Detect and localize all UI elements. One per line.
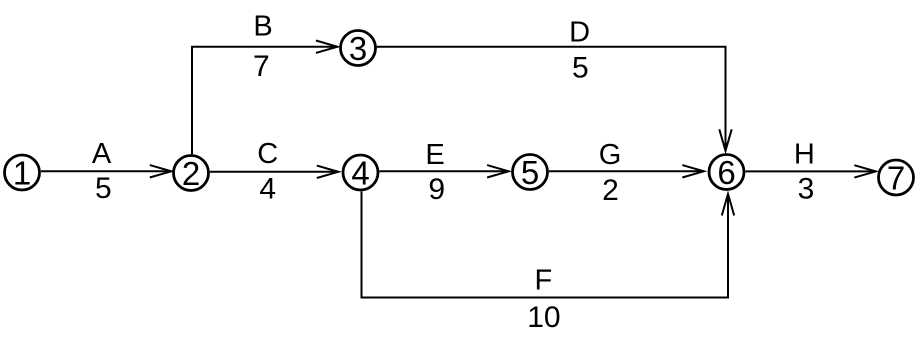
svg-text:1: 1 [13,154,31,191]
node 6 [709,154,744,191]
svg-text:5: 5 [572,52,589,85]
wire B (2 up and right to 3) [192,41,337,155]
node 1 [5,154,40,191]
node 2 [174,155,209,192]
svg-text:A: A [92,138,112,170]
wire H (6 to 7) [746,165,876,177]
node 3 [341,30,376,67]
wire A (1 to 2) [41,165,171,177]
svg-text:4: 4 [259,172,276,205]
svg-text:3: 3 [349,30,367,67]
svg-text:2: 2 [602,174,619,207]
svg-text:7: 7 [887,159,905,196]
svg-text:2: 2 [182,155,200,192]
node 5 [513,154,548,191]
svg-text:4: 4 [351,154,369,191]
svg-text:F: F [534,264,552,296]
svg-text:C: C [257,138,278,170]
wire G (5 to 6) [549,165,704,177]
svg-text:3: 3 [798,172,815,205]
wire D (3 right and down to 6) [377,47,732,151]
svg-text:E: E [425,139,444,171]
svg-text:G: G [599,139,622,171]
svg-text:D: D [569,16,590,48]
svg-text:5: 5 [521,154,539,191]
svg-text:5: 5 [95,172,112,205]
svg-text:6: 6 [717,154,735,191]
svg-text:9: 9 [428,173,445,206]
node 7 [879,159,914,196]
wire E (4 to 5) [380,165,509,177]
wire F (4 down, right, up to 6) [362,192,735,298]
svg-text:7: 7 [253,50,270,83]
svg-text:10: 10 [527,301,560,334]
node 4 [343,154,378,191]
svg-text:B: B [253,10,272,42]
wire C (2 to 4) [210,166,338,178]
svg-text:H: H [794,139,815,171]
